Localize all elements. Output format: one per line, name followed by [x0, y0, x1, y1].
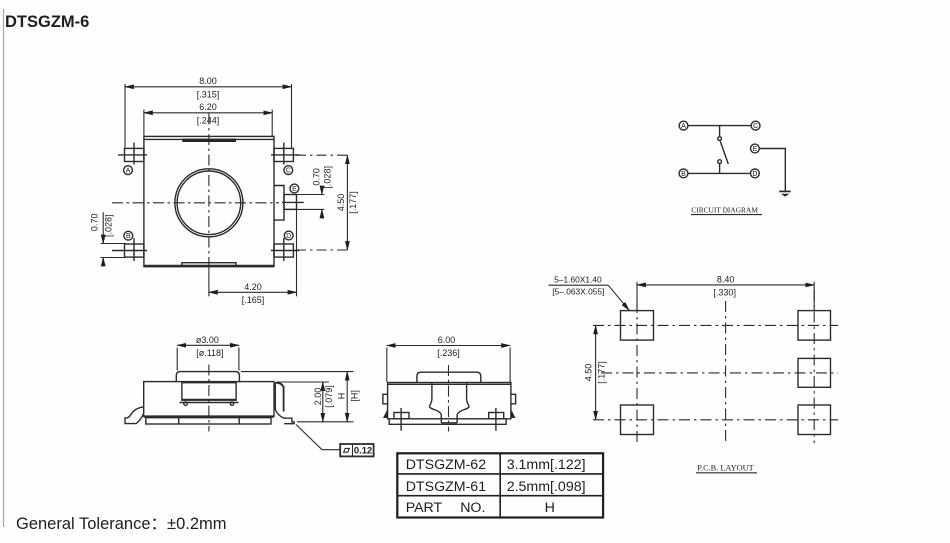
terminal D: [751, 169, 760, 178]
dim 4.20 bottom: [209, 209, 297, 305]
svg-text:6.00: 6.00: [438, 335, 456, 345]
svg-text:8.00: 8.00: [199, 76, 217, 86]
body bottom thick edge: [144, 415, 274, 417]
svg-text:2.00: 2.00: [313, 388, 323, 406]
body outline: [388, 383, 511, 419]
foot right: [489, 413, 504, 419]
svg-text:B: B: [126, 233, 131, 240]
contact bottom: [718, 160, 722, 164]
top cover tab (filled bar): [182, 139, 236, 142]
terminal A: [679, 121, 688, 130]
svg-text:8.40: 8.40: [717, 275, 735, 285]
svg-text:PART: PART: [406, 500, 443, 516]
svg-text:DTSGZM-62: DTSGZM-62: [406, 457, 487, 473]
base band: [389, 419, 506, 425]
centerline: [208, 365, 210, 432]
dim dia 3.00: [177, 335, 239, 370]
bottom center stem: [441, 422, 457, 424]
centerline left column: [636, 302, 638, 443]
pad right middle: [798, 358, 831, 387]
body top inner line: [144, 138, 274, 140]
svg-text:4.20: 4.20: [244, 282, 262, 292]
dim 8.00: [125, 76, 292, 148]
left gull-wing lead: [125, 407, 144, 424]
wire switch top stub: [719, 126, 721, 137]
E terminal protrusion: [274, 186, 284, 221]
foot left: [394, 413, 409, 419]
right gull-wing lead: [275, 383, 294, 425]
svg-text:D: D: [752, 171, 757, 178]
pad count callout 5-1.60X1.40: [548, 275, 629, 311]
svg-text:H: H: [337, 393, 347, 400]
dim H: [241, 372, 359, 422]
button outer circle: [175, 169, 243, 237]
switch body outline: [144, 136, 274, 266]
svg-text:A: A: [126, 168, 131, 175]
svg-text:[5–.063X.055]: [5–.063X.055]: [552, 287, 604, 297]
centerline right column: [813, 290, 815, 443]
svg-text:[.028]: [.028]: [323, 166, 333, 189]
dim 2.00: [277, 382, 354, 422]
base band: [146, 418, 271, 424]
svg-text:E: E: [292, 186, 297, 193]
svg-text:P.C.B. LAYOUT: P.C.B. LAYOUT: [697, 463, 753, 472]
svg-text:E: E: [753, 146, 758, 153]
svg-text:0.70: 0.70: [311, 168, 321, 186]
svg-text:[.028]: [.028]: [104, 214, 114, 237]
row centerline right extension (bottom pads): [296, 249, 351, 251]
svg-text:CIRCUIT DIAGRAM: CIRCUIT DIAGRAM: [691, 206, 758, 215]
button inner circle: [177, 171, 241, 235]
label B: [124, 231, 133, 240]
dim 6.20: [144, 102, 272, 136]
inner plunger funnel: [429, 383, 441, 423]
vertical centerline: [208, 114, 210, 268]
body outline: [144, 382, 274, 417]
page border scan line: [3, 9, 5, 527]
label A: [124, 166, 133, 175]
ground: [779, 190, 791, 192]
pad left bottom: [621, 405, 654, 435]
inner cover: [182, 383, 236, 401]
body bottom thick edge: [144, 265, 274, 268]
wire E to ground: [759, 149, 785, 191]
row centerline right extension (top pads): [296, 154, 351, 156]
svg-text:6.20: 6.20: [199, 102, 217, 112]
svg-text:[.165]: [.165]: [242, 295, 265, 305]
svg-text:D: D: [286, 233, 291, 240]
terminal C: [751, 121, 760, 130]
centerline row 3: [593, 419, 838, 421]
svg-text:[.079]: [.079]: [324, 385, 334, 408]
svg-text:C: C: [753, 123, 758, 130]
stem (button): [176, 372, 239, 382]
bottom cover tab: [182, 263, 236, 266]
svg-text:A: A: [681, 123, 686, 130]
side tab left: [383, 394, 388, 404]
svg-text:C: C: [286, 168, 291, 175]
svg-text:3.1mm[.122]: 3.1mm[.122]: [507, 457, 586, 473]
centerline: [448, 365, 450, 431]
dim 0.70 right (pad E): [284, 166, 333, 219]
svg-text:General Tolerance：±0.2mm: General Tolerance：±0.2mm: [16, 515, 227, 533]
svg-text:DTSGZM-6: DTSGZM-6: [5, 13, 89, 31]
dim 6.00: [387, 335, 510, 382]
svg-text:4.50: 4.50: [336, 194, 346, 212]
svg-text:[ø.118]: [ø.118]: [196, 348, 223, 358]
label C: [284, 166, 293, 175]
svg-text:0.70: 0.70: [89, 214, 99, 232]
svg-text:ø3.00: ø3.00: [196, 335, 219, 345]
centerline middle column: [725, 301, 727, 443]
wire switch bottom stub: [719, 164, 721, 174]
label D: [284, 231, 293, 240]
switch arm: [720, 142, 728, 165]
svg-text:NO.: NO.: [460, 500, 485, 516]
body top inner line: [388, 383, 511, 385]
side tab right: [511, 394, 516, 404]
terminal E: [751, 144, 760, 153]
svg-text:DTSGZM-61: DTSGZM-61: [406, 479, 487, 495]
wire B-D: [688, 172, 751, 174]
dim 4.50 right: [336, 155, 358, 250]
svg-text:5–1.60X1.40: 5–1.60X1.40: [554, 275, 602, 285]
centerline row 2: [601, 372, 838, 374]
svg-text:[.244]: [.244]: [197, 116, 220, 126]
flatness callout 0.12: [296, 425, 374, 457]
centerline row 1: [593, 324, 838, 326]
label E: [290, 184, 299, 193]
svg-text:H: H: [545, 500, 555, 516]
svg-text:[.236]: [.236]: [437, 348, 460, 358]
pad B (bottom-left tab): [125, 244, 144, 257]
dim 4.50: [584, 325, 607, 419]
row divider 2: [397, 495, 603, 497]
pad right bottom: [798, 405, 831, 435]
svg-text:[H]: [H]: [349, 390, 359, 402]
svg-text:B: B: [681, 171, 686, 178]
pad D (bottom-right tab): [274, 244, 293, 257]
dim 0.70 left: [89, 212, 126, 265]
pad E: [284, 195, 297, 210]
row divider 1: [397, 473, 603, 475]
table frame: [397, 453, 603, 517]
svg-text:4.50: 4.50: [584, 364, 594, 382]
column divider: [499, 453, 501, 517]
dim 8.40: [637, 275, 814, 311]
terminal B: [679, 169, 688, 178]
pad right top: [798, 311, 831, 341]
wire A-C: [688, 125, 751, 127]
svg-text:[.330]: [.330]: [713, 288, 736, 298]
svg-text:2.5mm[.098]: 2.5mm[.098]: [507, 479, 586, 495]
stem (side): [417, 372, 481, 382]
svg-text:[.177]: [.177]: [348, 191, 358, 214]
contact top: [718, 137, 722, 141]
svg-text:[.177]: [.177]: [597, 361, 607, 384]
pad left top: [621, 311, 654, 341]
horizontal centerline: [112, 202, 279, 204]
svg-text:[.315]: [.315]: [197, 90, 220, 100]
svg-text:0.12: 0.12: [354, 445, 372, 456]
pad A (top-left tab): [125, 148, 144, 161]
pad C (top-right tab): [274, 148, 293, 161]
